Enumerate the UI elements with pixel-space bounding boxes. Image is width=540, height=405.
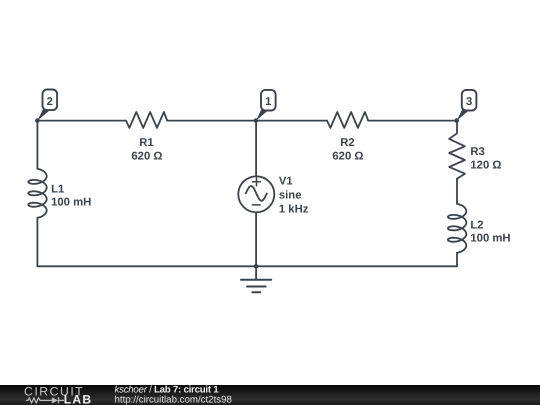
node 3 dot	[454, 118, 459, 123]
wire right vertical upper	[456, 121, 458, 134]
source V1 circle	[238, 176, 274, 212]
node 3 flag box	[462, 90, 477, 111]
ground bar 1	[241, 279, 271, 281]
logo diode bar and lead	[59, 397, 65, 403]
resistor R3	[449, 133, 465, 178]
inductor L2	[448, 204, 466, 253]
wire left vertical upper	[36, 121, 38, 169]
resistor R1	[126, 112, 167, 128]
wire right between R3 and L2	[456, 179, 458, 204]
svg-text:LAB: LAB	[64, 393, 92, 405]
ground stem	[255, 266, 257, 280]
wire left vertical lower	[36, 218, 38, 266]
logo diode triangle	[52, 397, 58, 403]
footer bar	[0, 385, 540, 405]
V1 sine mark	[246, 186, 267, 201]
node 1 flag box	[261, 90, 276, 111]
wire right vertical lower	[456, 253, 458, 266]
wire top: node2 to R1	[37, 120, 126, 122]
node 2 flag box	[43, 90, 58, 111]
node 2 dot	[35, 118, 40, 123]
wire middle vertical upper	[255, 121, 257, 177]
node 2 flag tail	[37, 108, 49, 121]
node 3 flag tail	[457, 108, 469, 121]
V1 plus sign	[253, 178, 261, 186]
svg-text:http://circuitlab.com/ct2ts98: http://circuitlab.com/ct2ts98	[115, 394, 232, 405]
node 1 flag tail	[256, 108, 268, 121]
node 1 dot	[254, 118, 259, 123]
ground junction dot	[254, 264, 259, 269]
wire middle vertical lower	[255, 213, 257, 267]
inductor L1	[28, 169, 46, 218]
ground bar 3	[252, 291, 260, 293]
resistor R2	[327, 112, 368, 128]
ground bar 2	[247, 286, 266, 288]
wire top: R1 to R2	[167, 120, 327, 122]
logo resistor squiggle	[26, 398, 52, 403]
V1 minus sign	[252, 204, 260, 206]
wire bottom	[37, 265, 457, 267]
wire top: R2 to node3	[368, 120, 457, 122]
